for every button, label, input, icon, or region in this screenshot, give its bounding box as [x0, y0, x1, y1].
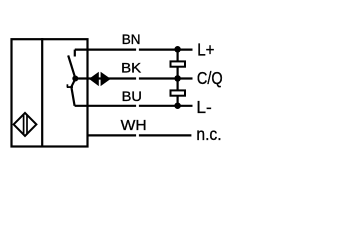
switch: fixed-contact tick (vertical stub) [66, 84, 68, 87]
switch: fixed-contact tick (horizontal) [67, 86, 73, 88]
sensor body box [12, 39, 88, 146]
wire BN [75, 48, 136, 50]
svg-text:WH: WH [121, 117, 147, 134]
svg-text:C/Q: C/Q [197, 68, 223, 88]
wire BK [75, 77, 136, 79]
svg-text:BK: BK [121, 61, 142, 77]
switch: upper contact (NO) [68, 55, 75, 78]
svg-text:BN: BN [122, 32, 141, 48]
wire WH [88, 134, 137, 136]
load resistor (C/Q to L-) [171, 90, 186, 95]
IO-Link bidirectional arrows on C/Q line [89, 72, 99, 86]
junction dot C/Q [174, 75, 181, 82]
load resistor (L+ to C/Q) [171, 61, 186, 66]
switch: lower contact upper segment [71, 79, 75, 87]
wire BU [75, 105, 137, 107]
svg-text:L-: L- [196, 97, 212, 117]
junction dot L- [174, 102, 181, 109]
svg-text:n.c.: n.c. [196, 124, 221, 144]
sensor body divider [41, 38, 43, 146]
switch: junction node dot [72, 76, 78, 82]
load bus vertical line [177, 50, 179, 106]
proximity sensor diamond symbol [14, 113, 37, 136]
switch: lower contact lower segment [71, 87, 74, 106]
junction dot L+ [174, 46, 181, 53]
svg-text:L+: L+ [197, 40, 214, 60]
switch: top stub [74, 50, 76, 57]
svg-text:BU: BU [122, 89, 142, 105]
